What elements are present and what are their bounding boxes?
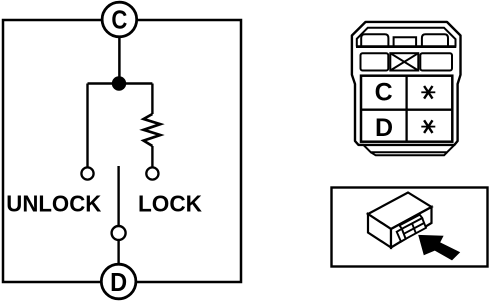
connector shelf line [356,45,456,48]
connector band rect left [361,53,389,70]
arrow pointer [418,235,460,261]
terminal C [102,2,137,37]
connector tab right [422,34,448,46]
wire C to junction [118,36,121,84]
junction node [112,76,126,90]
connector tab left [361,34,388,46]
control unit connector block [397,215,426,242]
control unit left face [368,214,391,248]
terminal D [101,264,136,299]
control unit callout box [332,188,488,267]
connector asterisk C row [421,86,435,99]
connector cavity grid [361,76,452,142]
svg-text:D: D [110,267,127,297]
control unit right face [391,207,432,248]
wire LOCK branch upper [151,84,153,115]
common pole contact [112,226,126,240]
UNLOCK contact [81,167,93,179]
wire LOCK branch lower [151,146,153,167]
label LOCK [138,191,202,217]
svg-text:C: C [375,79,393,107]
svg-text:LOCK: LOCK [138,191,202,217]
connector foot [359,145,455,155]
connector housing inner lip [357,28,456,47]
resistor [144,114,161,146]
connector band rect middle keyway [390,53,418,70]
control unit top face [368,193,432,230]
wire junction horizontal [88,82,153,84]
wire common pole lower [117,240,119,264]
connector housing outline [352,22,461,145]
svg-text:C: C [111,5,127,35]
LOCK contact [146,167,158,179]
svg-text:UNLOCK: UNLOCK [6,191,101,217]
wire common pole upper [117,166,119,226]
connector pin label D [375,114,393,142]
connector band rect right [420,53,452,70]
connector pin label C [375,79,393,107]
label UNLOCK [6,191,101,217]
connector asterisk D row [421,120,435,133]
door lock switch body [3,20,241,282]
connector tab middle [394,37,417,46]
svg-text:D: D [375,114,393,142]
wire UNLOCK branch [86,84,88,168]
